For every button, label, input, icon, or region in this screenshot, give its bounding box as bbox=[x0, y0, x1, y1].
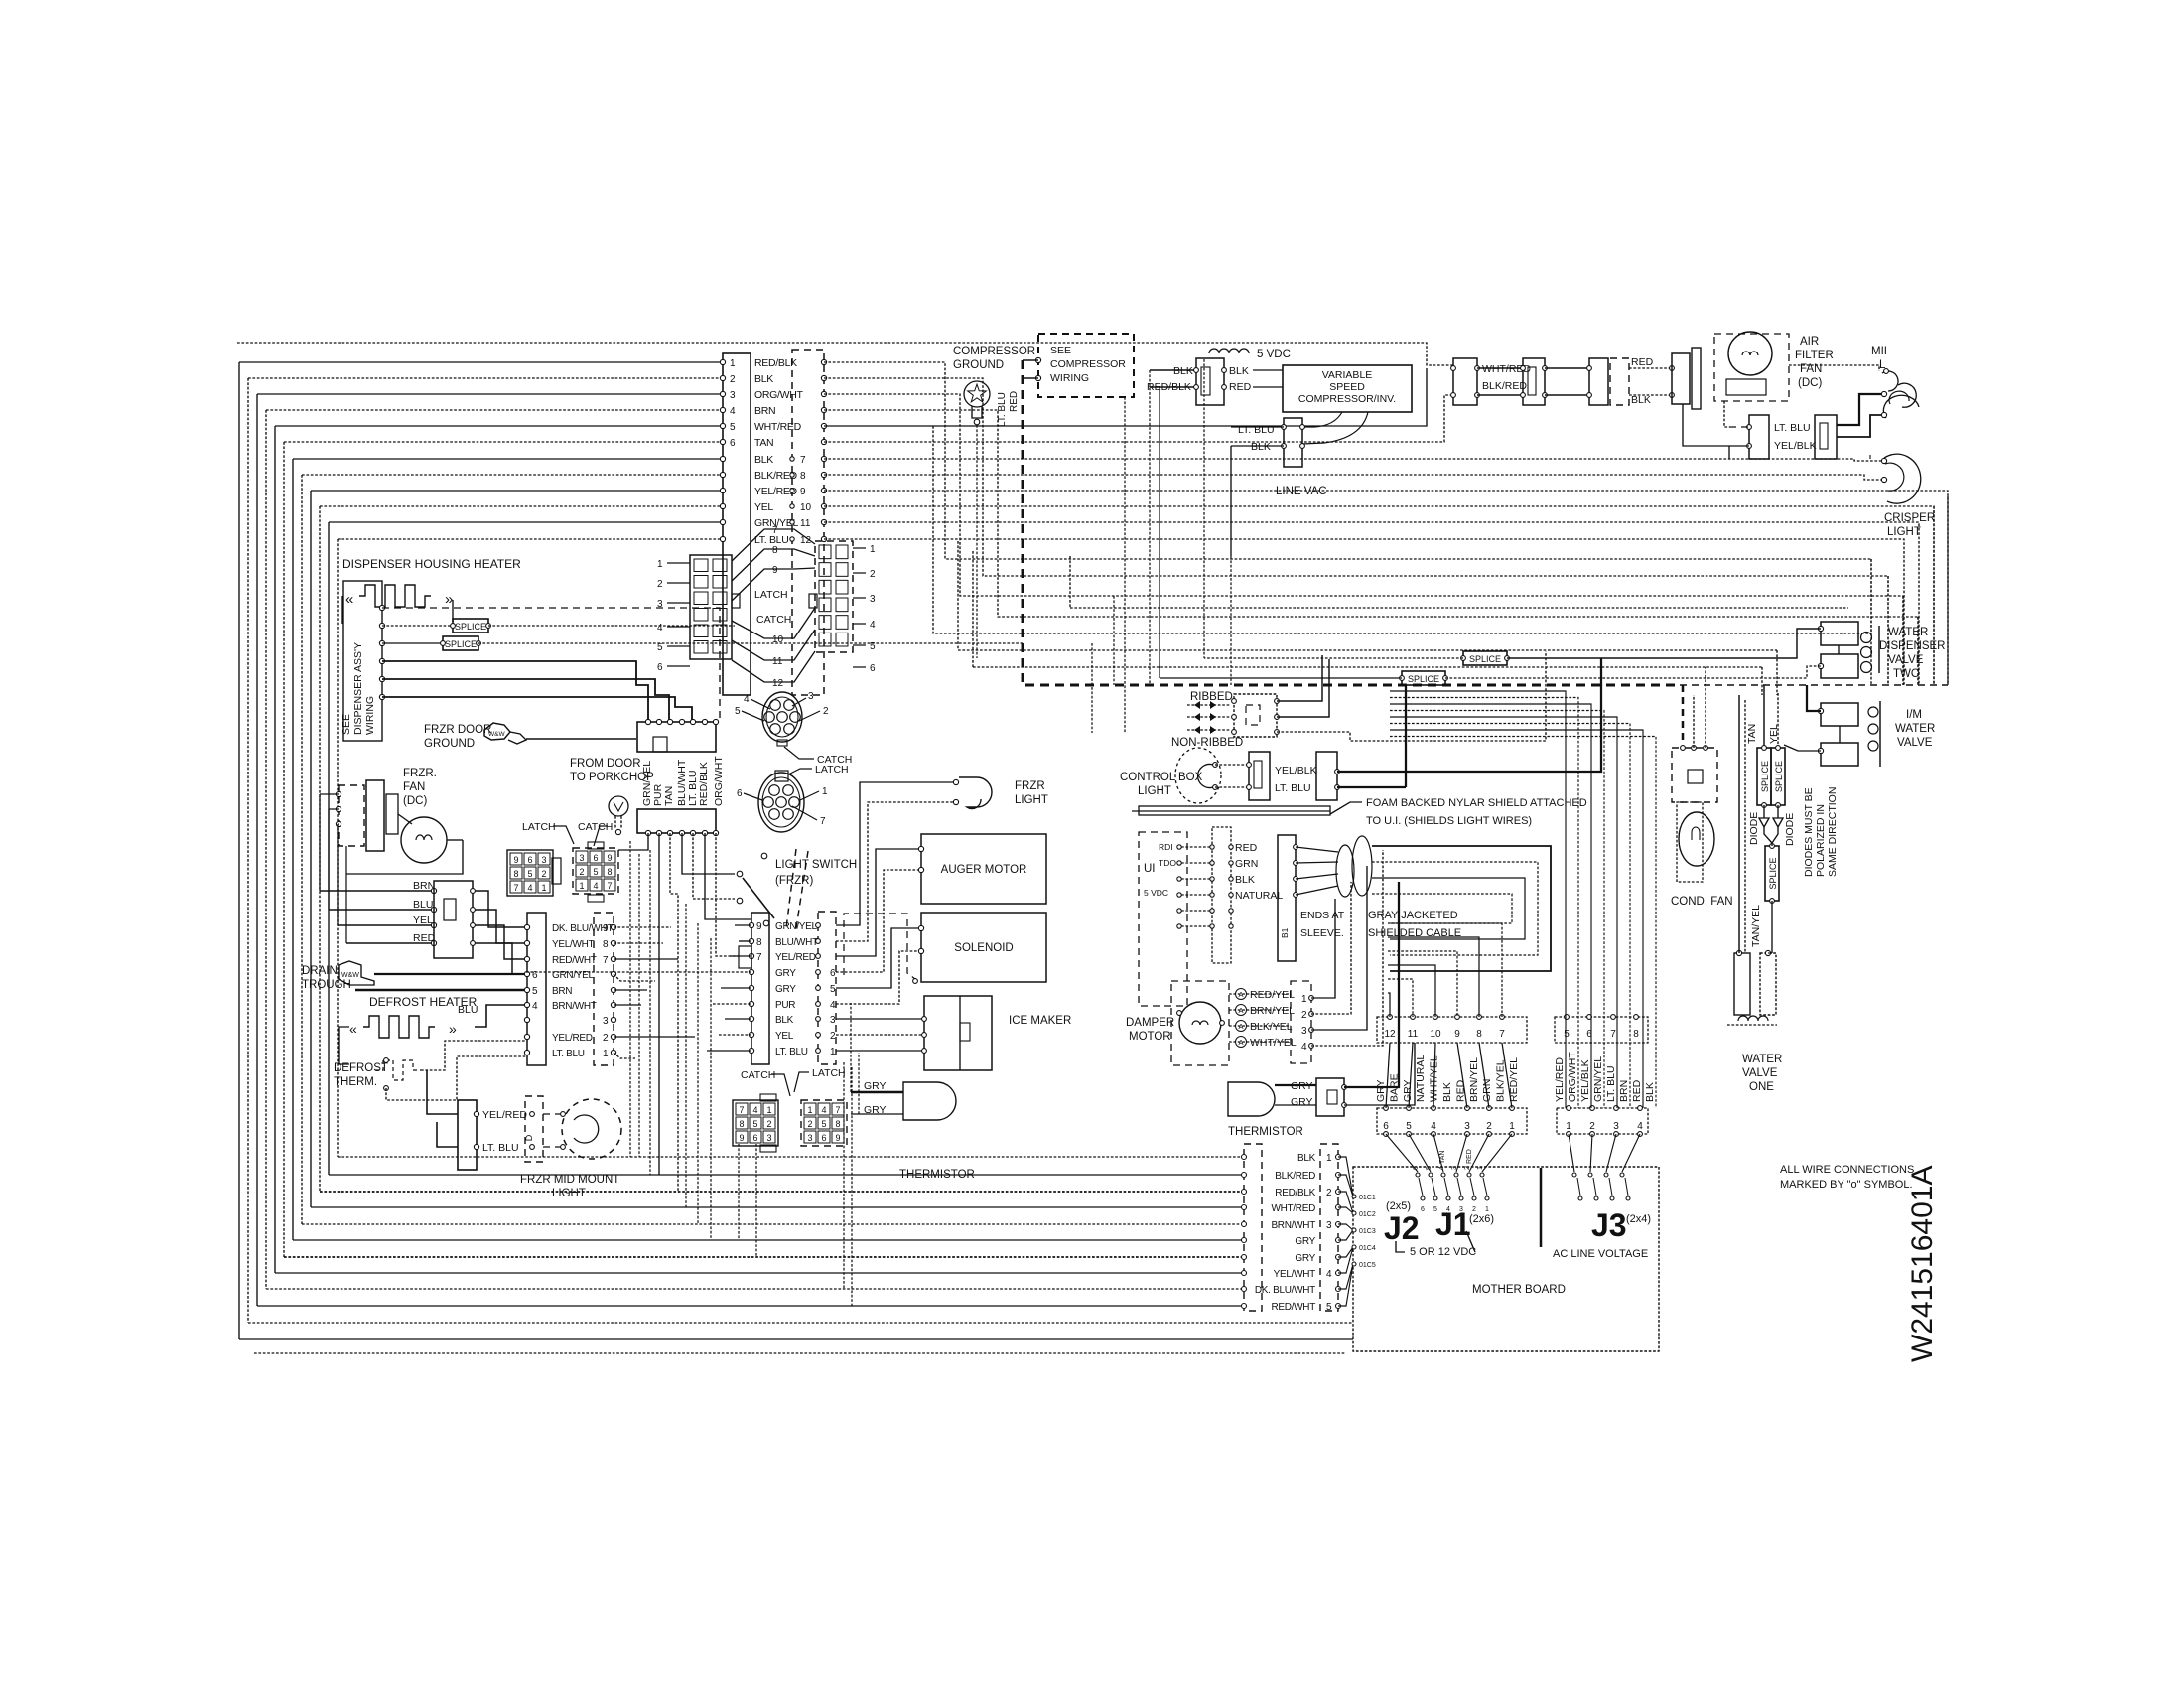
pin P3 out bbox=[471, 908, 476, 913]
wire fan BRN bbox=[320, 890, 434, 892]
pin im2 bbox=[1818, 748, 1823, 753]
P3 notch bbox=[444, 899, 456, 920]
svg-text:RED/BLK: RED/BLK bbox=[754, 357, 797, 369]
svg-text:TO U.I. (SHIELDS LIGHT WIRES): TO U.I. (SHIELDS LIGHT WIRES) bbox=[1366, 815, 1532, 827]
pin j1u bbox=[1411, 1015, 1416, 1020]
pin rb1 bbox=[1232, 699, 1237, 704]
wire j3 fan bbox=[1622, 1134, 1640, 1172]
pin sol3 bbox=[913, 979, 918, 984]
svg-text:4: 4 bbox=[821, 1105, 826, 1115]
wire j fan bbox=[1433, 1134, 1443, 1172]
wire molex num bbox=[667, 626, 690, 628]
pin uib bbox=[1210, 845, 1214, 849]
pin jlb bbox=[1465, 1132, 1470, 1137]
wire d1 out bbox=[1764, 827, 1772, 843]
connector latch grid cavity bbox=[524, 881, 536, 893]
connector latch grid cavity bbox=[538, 867, 550, 879]
pin P4R bbox=[611, 1017, 615, 1022]
pin dispenser bbox=[379, 676, 384, 681]
svg-text:4: 4 bbox=[657, 623, 663, 633]
gray jacketed shielded cable bbox=[1336, 845, 1354, 897]
connector catch grid c cavity bbox=[763, 1117, 775, 1129]
pin frzr light1 bbox=[953, 779, 958, 784]
pin wdv2a bbox=[1818, 626, 1823, 631]
pin P1-2 bbox=[720, 375, 725, 380]
svg-text:AC LINE VOLTAGE: AC LINE VOLTAGE bbox=[1553, 1248, 1648, 1260]
circled A bbox=[1236, 989, 1247, 1000]
pin P3 out bbox=[471, 941, 476, 946]
svg-text:LT. BLU: LT. BLU bbox=[552, 1049, 585, 1059]
svg-text:YEL/WHT: YEL/WHT bbox=[1274, 1269, 1316, 1280]
wire fan BLU bbox=[329, 909, 434, 911]
wire to splice1 bbox=[382, 625, 453, 627]
pin P4L bbox=[524, 1017, 529, 1022]
pin bbox=[1294, 861, 1298, 866]
svg-text:3: 3 bbox=[603, 1016, 609, 1027]
svg-text:2: 2 bbox=[1589, 1121, 1595, 1132]
svg-text:«: « bbox=[349, 1021, 357, 1037]
connector molex right cavity bbox=[819, 616, 831, 630]
wire bus bottom row bbox=[302, 1223, 1244, 1225]
stub2 bbox=[1768, 952, 1772, 954]
svg-text:4: 4 bbox=[1637, 1121, 1643, 1132]
wire bus vertical 9 bbox=[310, 491, 312, 1207]
svg-text:W&W: W&W bbox=[488, 731, 505, 738]
terminal 01C bbox=[1352, 1195, 1356, 1198]
svg-text:3: 3 bbox=[541, 855, 546, 865]
pin P4R bbox=[611, 1050, 615, 1055]
pin porkchop bottom bbox=[690, 830, 695, 835]
pin P6R bbox=[816, 939, 821, 944]
wire P4 out1 bbox=[614, 926, 671, 928]
wire j1u drop bbox=[1388, 951, 1457, 1017]
pin p7a bbox=[1242, 1238, 1247, 1243]
pin bbox=[1294, 877, 1298, 882]
pin comp ground bbox=[974, 419, 980, 425]
wire t2 out2 bbox=[1344, 1043, 1415, 1105]
pin porkchop top bbox=[656, 719, 661, 724]
pin uic bbox=[1229, 877, 1233, 881]
svg-text:4: 4 bbox=[752, 1105, 757, 1115]
svg-text:3: 3 bbox=[579, 853, 584, 863]
svg-text:I/M: I/M bbox=[1906, 709, 1922, 721]
svg-text:7: 7 bbox=[820, 816, 826, 827]
door bulb bbox=[609, 796, 628, 816]
wire mid h7 bbox=[973, 666, 1762, 668]
wire right v2 bbox=[1933, 506, 1935, 685]
svg-text:BLK: BLK bbox=[1229, 365, 1249, 377]
pin P6R bbox=[816, 986, 821, 991]
svg-text:GRY: GRY bbox=[1295, 1253, 1315, 1264]
wire heater left bbox=[339, 1027, 349, 1064]
svg-text:5: 5 bbox=[527, 869, 532, 879]
pin LS1 bbox=[737, 871, 743, 877]
comp A notch bbox=[1201, 367, 1210, 395]
connector latch grid cavity bbox=[524, 867, 536, 879]
svg-text:3: 3 bbox=[1301, 1026, 1307, 1037]
svg-text:BLK: BLK bbox=[1297, 1153, 1316, 1164]
box damper bbox=[1171, 981, 1229, 1065]
pin bbox=[1670, 366, 1675, 371]
connector catch grid c bbox=[733, 1100, 778, 1146]
wire wdv2 a bbox=[1507, 629, 1821, 658]
valve WV1 a bbox=[1734, 953, 1750, 1015]
catch tab round bbox=[777, 740, 787, 746]
svg-text:3: 3 bbox=[1464, 1121, 1470, 1132]
wire damper out2 bbox=[1311, 882, 1351, 1014]
wire damper out4 bbox=[1311, 850, 1383, 1046]
wire drop extra3 bbox=[685, 904, 687, 1207]
therm2 notch bbox=[1327, 1090, 1337, 1104]
wire im b bbox=[1784, 745, 1821, 751]
pin jl bbox=[1487, 1106, 1492, 1111]
catch grid tab2 bbox=[588, 895, 604, 902]
svg-text:1: 1 bbox=[870, 544, 876, 555]
svg-text:2: 2 bbox=[1301, 1010, 1307, 1021]
wire ui bbox=[1181, 846, 1212, 848]
svg-text:LT. BLU: LT. BLU bbox=[1774, 422, 1811, 434]
svg-text:4: 4 bbox=[830, 1000, 836, 1011]
wire coil base bbox=[1727, 1024, 1777, 1026]
svg-text:01C3: 01C3 bbox=[1359, 1228, 1376, 1235]
bracket2 bbox=[1466, 1231, 1475, 1252]
svg-text:J2: J2 bbox=[1384, 1210, 1420, 1246]
svg-text:11: 11 bbox=[800, 518, 811, 529]
pin mb row2 bbox=[1485, 1196, 1489, 1200]
wire bbox=[735, 924, 751, 926]
ground lug 2 bbox=[508, 732, 526, 744]
svg-text:DAMPER: DAMPER bbox=[1126, 1017, 1174, 1029]
svg-text:5: 5 bbox=[735, 706, 741, 717]
wire therm out bbox=[421, 1041, 527, 1070]
svg-text:LT. BLU: LT. BLU bbox=[482, 1142, 519, 1154]
wire lead bbox=[751, 699, 770, 709]
pin p7b bbox=[1336, 1287, 1341, 1292]
wire ice 1 bbox=[836, 1018, 924, 1020]
wire right drop bbox=[824, 539, 1904, 685]
svg-text:5: 5 bbox=[752, 1119, 757, 1129]
wire drop right bbox=[1902, 596, 1904, 685]
wire d1 bbox=[1763, 805, 1765, 818]
pin j1u bbox=[1477, 1015, 1482, 1020]
wire ground bbox=[526, 738, 636, 740]
pin p7a bbox=[1242, 1190, 1247, 1195]
connector latch grid c cavity bbox=[818, 1117, 830, 1129]
wire j1u drop bbox=[1388, 937, 1479, 1017]
svg-text:1: 1 bbox=[766, 1105, 771, 1115]
thermistor capsule bbox=[903, 1082, 956, 1120]
pin crisper1 bbox=[1881, 391, 1886, 396]
svg-text:4: 4 bbox=[593, 881, 598, 891]
wire d2 out bbox=[1772, 827, 1778, 843]
wire cbl out2 bbox=[1337, 786, 1406, 788]
pin dm1 bbox=[1177, 1011, 1182, 1016]
connector molex left cavity bbox=[713, 559, 727, 572]
pin j3u bbox=[1587, 1015, 1592, 1020]
wire mid v8 bbox=[1761, 667, 1763, 695]
wire c6c bbox=[1729, 445, 1749, 447]
svg-text:5: 5 bbox=[1406, 1121, 1412, 1132]
svg-text:5: 5 bbox=[730, 422, 736, 433]
wire curve to line vac bbox=[1302, 412, 1342, 427]
pin porkchop bottom bbox=[679, 830, 684, 835]
wire j fan bbox=[1482, 1134, 1512, 1172]
pin bbox=[1670, 393, 1675, 398]
wire molex cross bbox=[732, 651, 815, 682]
wire lead latch bbox=[788, 769, 812, 774]
connector molex right cavity bbox=[836, 580, 848, 594]
pin P5a bbox=[474, 1111, 478, 1116]
pin p7b bbox=[1336, 1271, 1341, 1276]
connector C1 bbox=[1453, 358, 1477, 405]
wire af drop bbox=[1724, 401, 1729, 427]
wire j3 fan2 bbox=[1577, 1178, 1580, 1196]
svg-text:LT. BLU: LT. BLU bbox=[1605, 1065, 1617, 1102]
wire cbl1 bbox=[1215, 764, 1249, 766]
svg-text:RED/BLK: RED/BLK bbox=[698, 762, 710, 806]
connector molex left cavity bbox=[694, 641, 708, 654]
wire lead bbox=[799, 711, 820, 721]
connector C3 bbox=[1589, 358, 1608, 405]
pin fan1 bbox=[336, 791, 341, 796]
svg-text:BLK/YEL: BLK/YEL bbox=[1495, 1059, 1507, 1102]
svg-text:TAN: TAN bbox=[1746, 724, 1758, 744]
svg-text:B1: B1 bbox=[1280, 927, 1290, 938]
pin p7b bbox=[1336, 1255, 1341, 1260]
wire molex num bbox=[667, 645, 690, 647]
pin P4R bbox=[611, 987, 615, 992]
connector porkchop bottom bbox=[637, 809, 716, 833]
valve IM coil a bbox=[1821, 703, 1858, 726]
svg-text:9: 9 bbox=[607, 853, 612, 863]
terminal 01C bbox=[1352, 1228, 1356, 1232]
pin crisper2 bbox=[1881, 412, 1886, 417]
svg-text:NON-RIBBED: NON-RIBBED bbox=[1171, 737, 1243, 749]
ice maker divider bbox=[959, 996, 961, 1070]
pin therm1 bbox=[384, 1058, 389, 1063]
svg-text:BLK: BLK bbox=[1235, 874, 1255, 886]
wire bus row 12 bbox=[338, 538, 723, 540]
pin P4L bbox=[524, 1034, 529, 1039]
wire P4 out2 bbox=[614, 942, 663, 944]
connector molex left cavity bbox=[713, 625, 727, 637]
pin uic bbox=[1229, 893, 1233, 897]
wire crisper a bbox=[1837, 394, 1881, 425]
wire bbox=[725, 1018, 751, 1020]
svg-text:TAN: TAN bbox=[754, 437, 773, 449]
wire j mid bbox=[1479, 1043, 1489, 1108]
svg-text:FRZR MID MOUNT: FRZR MID MOUNT bbox=[520, 1174, 619, 1186]
pin P4L bbox=[524, 924, 529, 929]
porkchop notch bbox=[653, 737, 667, 752]
wire damper lbl bbox=[1229, 1009, 1291, 1011]
wire bus vertical 3 bbox=[256, 394, 258, 1306]
pin porkchop top bbox=[667, 719, 672, 724]
pin porkchop bottom bbox=[667, 830, 672, 835]
svg-text:FAN: FAN bbox=[403, 781, 425, 793]
crisper light arc lower bbox=[1884, 454, 1921, 503]
wire bus row 10 bbox=[320, 505, 723, 507]
wire bus vertical 12 bbox=[337, 539, 339, 1157]
connector latch grid c cavity bbox=[818, 1131, 830, 1143]
pin P1-8 bbox=[720, 472, 725, 477]
svg-text:DISPENSER ASS'Y: DISPENSER ASS'Y bbox=[352, 642, 364, 735]
wire drop long bbox=[658, 833, 660, 1175]
wire af drop2 bbox=[1683, 404, 1729, 446]
wire cable out2 bbox=[1372, 878, 1525, 939]
pin j1u bbox=[1500, 1015, 1505, 1020]
pin P2-8b bbox=[790, 473, 794, 477]
connector molex right bbox=[815, 541, 853, 652]
pin p7b bbox=[1336, 1238, 1341, 1243]
pin j3u bbox=[1565, 1015, 1570, 1020]
svg-text:8: 8 bbox=[739, 1119, 744, 1129]
wire drop right bbox=[1870, 559, 1872, 685]
wire drop extra1 bbox=[638, 854, 640, 1157]
pin mii bbox=[1884, 369, 1889, 374]
latch lead bbox=[553, 826, 574, 844]
wire ribbed out2 bbox=[1277, 659, 1329, 717]
svg-text:GRY: GRY bbox=[775, 968, 796, 979]
pin p7b bbox=[1336, 1173, 1341, 1178]
wire cable out0 bbox=[1372, 846, 1551, 971]
pin cbl1 bbox=[1213, 763, 1218, 768]
pin mb j3 bbox=[1572, 1173, 1576, 1177]
svg-text:BLK/RED: BLK/RED bbox=[1275, 1171, 1315, 1182]
connector molex right cavity bbox=[836, 633, 848, 646]
pin mb row2 bbox=[1446, 1196, 1450, 1200]
pin uic bbox=[1229, 845, 1233, 849]
wire j3 fan2 bbox=[1625, 1178, 1628, 1196]
svg-text:RED: RED bbox=[1229, 381, 1252, 393]
svg-text:COMPRESSOR/INV.: COMPRESSOR/INV. bbox=[1298, 393, 1396, 405]
wire molex num bbox=[853, 547, 866, 549]
wire P3-P4 bbox=[473, 943, 527, 974]
wire molex num bbox=[667, 602, 690, 604]
pin frzr light2 bbox=[953, 799, 958, 804]
connector latch grid c cavity bbox=[804, 1117, 816, 1129]
svg-text:«: « bbox=[345, 591, 353, 608]
pin cbl2 bbox=[1213, 785, 1218, 790]
pin P1-9 bbox=[720, 488, 725, 492]
wire drop long dotted bbox=[629, 841, 631, 1157]
svg-text:1: 1 bbox=[657, 559, 663, 570]
pin ui bbox=[1177, 893, 1181, 897]
wire gry drop2 bbox=[858, 1053, 860, 1114]
svg-text:YEL/WHT: YEL/WHT bbox=[552, 939, 595, 950]
grid tab bbox=[760, 1094, 776, 1101]
svg-text:4: 4 bbox=[1301, 1042, 1307, 1053]
wire bus row 9 bbox=[311, 490, 723, 492]
svg-text:9: 9 bbox=[603, 923, 609, 934]
bulb stem bbox=[614, 816, 616, 829]
svg-text:THERM.: THERM. bbox=[334, 1076, 377, 1088]
pin P4R bbox=[611, 1034, 615, 1039]
wire right drop bbox=[824, 506, 1934, 685]
svg-text:(2x6): (2x6) bbox=[1469, 1213, 1494, 1225]
svg-text:TWO: TWO bbox=[1893, 668, 1920, 680]
wire c6b bbox=[1728, 446, 1730, 459]
pin P6R bbox=[816, 970, 821, 975]
wire j mid bbox=[1386, 1043, 1390, 1108]
pin uib bbox=[1210, 924, 1214, 928]
wire P3-P4 bbox=[473, 891, 527, 927]
wire feed mid bbox=[824, 410, 1918, 617]
svg-text:LIGHT: LIGHT bbox=[1015, 794, 1048, 806]
wire gry1 bbox=[851, 1091, 903, 1093]
svg-text:6: 6 bbox=[737, 788, 743, 799]
wire mid h5 bbox=[933, 426, 1871, 633]
svg-text:1: 1 bbox=[603, 1049, 609, 1059]
svg-text:GRN: GRN bbox=[1235, 858, 1258, 870]
pin P2-10 bbox=[821, 503, 826, 508]
connector catch grid bbox=[573, 848, 618, 894]
cable wire bbox=[1296, 886, 1338, 895]
svg-text:GRY: GRY bbox=[775, 984, 796, 995]
svg-text:GRN: GRN bbox=[1481, 1079, 1493, 1102]
pin P2-2 bbox=[821, 375, 826, 380]
svg-text:1: 1 bbox=[1509, 1121, 1515, 1132]
pin P4R bbox=[611, 971, 615, 976]
wire to light switch 2 bbox=[693, 833, 735, 899]
wire cable out3 bbox=[1372, 894, 1512, 923]
connector P6 left bbox=[751, 913, 769, 1064]
wire bus vertical 5 bbox=[274, 426, 276, 1273]
pin light1 bbox=[561, 1112, 566, 1117]
svg-text:BLK: BLK bbox=[754, 454, 773, 466]
pin j3lb bbox=[1590, 1132, 1595, 1137]
svg-text:YEL/BLK: YEL/BLK bbox=[1774, 440, 1817, 452]
svg-text:9: 9 bbox=[800, 487, 806, 497]
pin P6R bbox=[816, 923, 821, 928]
wire to splice2 bbox=[382, 642, 443, 644]
connector P7 a bbox=[1244, 1144, 1262, 1311]
wire ribbed 1 bbox=[1187, 716, 1231, 718]
wire j fan bbox=[1469, 1134, 1489, 1172]
svg-text:4: 4 bbox=[1431, 1121, 1436, 1132]
svg-text:PUR: PUR bbox=[775, 1000, 795, 1011]
wire c12b bbox=[1477, 394, 1523, 396]
pin P4L bbox=[524, 1050, 529, 1055]
wire molex num bbox=[667, 562, 690, 564]
pin ice1 bbox=[922, 1017, 927, 1022]
wire wv1 v2 bbox=[1744, 700, 1746, 953]
wire p7 mb bbox=[1338, 1247, 1353, 1257]
pin sol1 bbox=[918, 925, 923, 930]
svg-text:3: 3 bbox=[808, 691, 814, 702]
pin ui bbox=[1177, 909, 1181, 913]
svg-text:01C2: 01C2 bbox=[1359, 1211, 1376, 1218]
wire j mid bbox=[1409, 1043, 1413, 1108]
pin crisper3 bbox=[1881, 458, 1886, 463]
svg-text:AUGER MOTOR: AUGER MOTOR bbox=[941, 864, 1027, 876]
connector catch grid cavity bbox=[590, 851, 602, 863]
wire crisper b bbox=[1837, 415, 1881, 437]
wire P4 out3 bbox=[614, 958, 678, 960]
svg-text:DIODE: DIODE bbox=[1784, 813, 1796, 846]
svg-text:WIRING: WIRING bbox=[1050, 372, 1089, 384]
pin P1-1 bbox=[720, 359, 725, 364]
svg-text:(FRZR): (FRZR) bbox=[775, 875, 813, 887]
bulb neck bbox=[972, 406, 982, 418]
wire cable out1 bbox=[1372, 862, 1538, 955]
wire bus row 4 bbox=[266, 409, 723, 411]
wire lead bbox=[742, 711, 764, 721]
wire scw1 bbox=[1023, 359, 1038, 361]
C2 notch bbox=[1528, 367, 1536, 395]
pin damper 2 bbox=[1309, 1012, 1314, 1017]
pin P6L bbox=[749, 1001, 753, 1006]
